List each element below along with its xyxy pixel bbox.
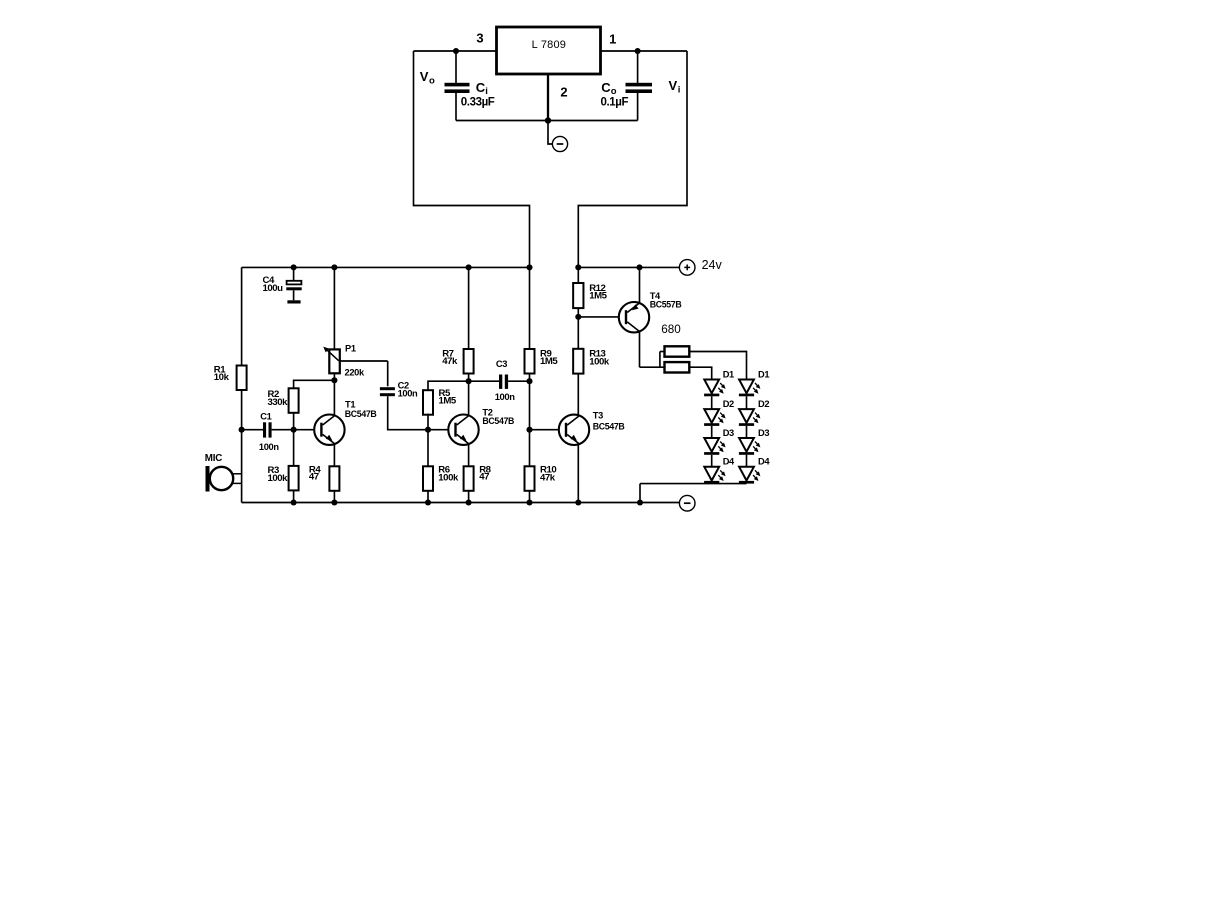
svg-text:C1: C1	[260, 412, 271, 422]
svg-text:100n: 100n	[398, 388, 418, 398]
svg-text:100n: 100n	[259, 442, 279, 452]
svg-text:100n: 100n	[495, 391, 516, 402]
svg-text:1: 1	[609, 32, 616, 47]
svg-text:1M5: 1M5	[439, 396, 457, 407]
svg-text:BC547B: BC547B	[345, 409, 377, 419]
svg-text:10k: 10k	[214, 372, 230, 383]
svg-text:BC547B: BC547B	[593, 421, 625, 431]
svg-text:o: o	[429, 75, 435, 86]
svg-text:47k: 47k	[540, 472, 556, 483]
svg-text:BC547B: BC547B	[482, 416, 514, 426]
svg-text:1M5: 1M5	[589, 291, 607, 302]
svg-text:D2: D2	[758, 399, 769, 409]
svg-text:MIC: MIC	[205, 453, 222, 464]
svg-text:D1: D1	[723, 369, 734, 379]
svg-text:D3: D3	[758, 428, 769, 438]
svg-text:100k: 100k	[268, 473, 289, 484]
svg-text:3: 3	[476, 31, 483, 46]
svg-text:D4: D4	[723, 457, 735, 467]
svg-text:330k: 330k	[268, 397, 289, 408]
svg-text:T3: T3	[593, 411, 603, 421]
svg-text:24v: 24v	[702, 258, 723, 272]
svg-text:1M5: 1M5	[540, 356, 558, 367]
svg-text:0.33µF: 0.33µF	[461, 96, 495, 108]
svg-text:C3: C3	[496, 359, 507, 369]
svg-text:680: 680	[661, 323, 681, 336]
svg-text:100k: 100k	[438, 472, 459, 483]
svg-text:D4: D4	[758, 457, 770, 467]
svg-text:220k: 220k	[345, 368, 365, 378]
svg-text:D1: D1	[758, 369, 769, 379]
svg-text:L 7809: L 7809	[532, 39, 566, 51]
svg-text:0.1µF: 0.1µF	[601, 96, 629, 108]
svg-text:47k: 47k	[442, 356, 458, 367]
svg-text:D2: D2	[723, 399, 734, 409]
svg-text:i: i	[678, 84, 681, 95]
svg-text:BC557B: BC557B	[650, 299, 682, 309]
svg-text:P1: P1	[345, 344, 356, 354]
svg-text:D3: D3	[723, 428, 734, 438]
svg-text:V: V	[420, 69, 429, 84]
svg-text:100u: 100u	[263, 283, 284, 294]
svg-text:V: V	[669, 78, 678, 93]
svg-text:47: 47	[479, 471, 489, 482]
svg-text:100k: 100k	[589, 357, 610, 368]
svg-text:47: 47	[309, 471, 319, 482]
svg-text:2: 2	[560, 85, 567, 100]
